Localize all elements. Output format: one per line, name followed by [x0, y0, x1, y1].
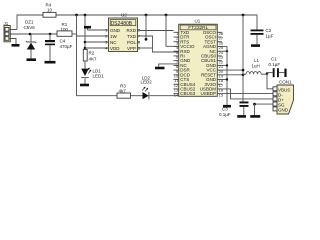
svg-text:C1: C1: [271, 57, 277, 62]
U1 left pin labels: [180, 30, 196, 96]
wire VBUS drop: [267, 74, 273, 89]
svg-text:VDD: VDD: [110, 46, 120, 51]
svg-text:U1: U1: [195, 19, 201, 24]
wire U1 VCC to x243: [222, 69, 243, 71]
U1 pin numbers right: [219, 31, 224, 97]
svg-text:RXD: RXD: [126, 28, 136, 33]
svg-text:1µF: 1µF: [266, 33, 274, 38]
resistor R3: [117, 84, 131, 99]
node dot C1 left: [266, 72, 269, 75]
zener DZ1: [24, 20, 37, 59]
node dot rail x146: [145, 14, 148, 17]
wire to U2 pin4: [85, 47, 109, 49]
U1 right pin labels: [200, 30, 217, 96]
svg-text:1W: 1W: [110, 34, 118, 39]
svg-text:C3: C3: [222, 107, 228, 112]
wire LED2 to U1: [150, 95, 179, 97]
node dot rail x243: [242, 14, 245, 17]
svg-text:NC: NC: [110, 40, 117, 45]
wire vertical x85 rail to R2: [84, 15, 86, 50]
node dot rail x166: [165, 14, 168, 17]
wire U1 GND18: [222, 79, 227, 81]
svg-text:15: 15: [219, 92, 224, 97]
wire R3 to LED2: [131, 95, 143, 97]
ground DZ1: [27, 58, 37, 61]
svg-text:0.1µF: 0.1µF: [269, 62, 281, 67]
resistor R1: [57, 22, 72, 37]
wire U2 GND row: [88, 29, 109, 31]
capacitor C1: [267, 57, 287, 78]
wire J1 pin3 to ground: [9, 39, 16, 45]
svg-text:4K7: 4K7: [89, 56, 98, 61]
wire U2.RXD to U1.TXD: [140, 30, 174, 32]
U2 right pin stubs: [138, 30, 141, 48]
wire to U2 pin3: [85, 41, 109, 43]
LED LD1: [81, 61, 104, 84]
node dot C4 top: [49, 33, 52, 36]
svg-text:1uH: 1uH: [252, 64, 260, 69]
wire U2.VPP join: [140, 47, 153, 49]
wire R1 right lead: [72, 33, 77, 35]
wire rail to U1.VCCIO: [166, 15, 179, 46]
connector J1: [4, 21, 11, 42]
svg-text:U2: U2: [121, 12, 127, 17]
U1 pin stubs left: [174, 32, 179, 93]
svg-text:J1: J1: [4, 21, 9, 26]
pin numbers U2 left: [105, 28, 108, 51]
svg-text:0.1µF: 0.1µF: [219, 112, 231, 117]
svg-text:VPP: VPP: [127, 46, 136, 51]
ground C4: [45, 61, 56, 64]
resistor R2: [83, 50, 97, 62]
node dot x85 y48: [84, 47, 87, 50]
IC U1 FT232RL: [179, 19, 218, 97]
svg-text:GND: GND: [110, 28, 121, 33]
ground U1 left: [155, 67, 165, 70]
wire 1W row to U2: [77, 35, 109, 37]
svg-text:C4: C4: [60, 39, 66, 44]
svg-text:10: 10: [47, 7, 53, 12]
wire U1 RESET to L1 row: [222, 74, 243, 76]
node dot x85 y42: [84, 41, 87, 44]
svg-text:L1: L1: [254, 58, 260, 63]
connector CON1 USB: [273, 79, 294, 114]
svg-text:DZ1: DZ1: [25, 20, 34, 25]
ground LD1: [80, 84, 89, 87]
capacitor C2: [251, 28, 274, 45]
U1 pin numbers left: [174, 31, 179, 97]
wire vertical x227: [226, 47, 228, 106]
node dot rail x77: [75, 14, 78, 17]
wire vertical x146: [145, 15, 147, 39]
capacitor C4: [45, 34, 73, 61]
svg-text:100: 100: [61, 27, 69, 32]
wire U1 GND21: [222, 64, 227, 66]
node dot DZ1 top: [29, 33, 32, 36]
svg-text:GND: GND: [278, 108, 289, 113]
svg-text:14: 14: [174, 92, 179, 97]
svg-text:DS2480B: DS2480B: [111, 21, 133, 27]
svg-text:LED1: LED1: [93, 74, 105, 79]
wire vertical x243: [242, 15, 244, 102]
wire CON1 SG row: [255, 103, 274, 105]
wire top 5V rail: [17, 15, 257, 30]
wire USBDP to D-: [222, 93, 273, 95]
ground x227: [223, 105, 231, 108]
svg-text:R2: R2: [89, 50, 95, 55]
svg-text:CON1: CON1: [279, 79, 292, 84]
svg-text:TXD: TXD: [127, 34, 137, 39]
inductor L1: [243, 58, 267, 74]
resistor R4: [43, 2, 56, 17]
svg-text:C2: C2: [266, 28, 272, 33]
wire U1 AGND/NC to gnd rail: [222, 46, 227, 48]
wire J1 pin1 to rail: [9, 29, 17, 31]
ground CON1: [250, 115, 260, 118]
node dot rail x85: [84, 14, 87, 17]
svg-text:CBUS3: CBUS3: [180, 91, 196, 96]
ground C2: [251, 44, 260, 47]
node dot x146 y39: [145, 38, 148, 41]
svg-text:C5V6: C5V6: [24, 25, 36, 30]
svg-text:LED2: LED2: [141, 80, 153, 85]
ground U2 GND pin: [84, 27, 91, 30]
svg-text:POL: POL: [127, 40, 137, 45]
wire vertical x254.5 to ground: [254, 104, 256, 115]
svg-text:4k7: 4k7: [119, 89, 127, 94]
U1 pin stubs right: [217, 32, 222, 93]
capacitor C3: [219, 102, 249, 117]
svg-text:470µF: 470µF: [60, 44, 73, 49]
wire J1 pin2 row: [9, 33, 57, 35]
IC U2 DS2480B: [109, 12, 138, 51]
wire U1 pin8 to ground: [159, 64, 179, 67]
LED LD2: [141, 75, 153, 99]
ground J1: [12, 44, 20, 47]
svg-text:USBDP: USBDP: [200, 91, 216, 96]
U2 right pin numbers: [138, 28, 141, 51]
wire data vertical x76.5: [77, 15, 118, 96]
ground C3: [237, 115, 246, 118]
wire USBDM to D+: [222, 89, 273, 99]
wire U2.TXD to U1.RI: [140, 36, 179, 52]
